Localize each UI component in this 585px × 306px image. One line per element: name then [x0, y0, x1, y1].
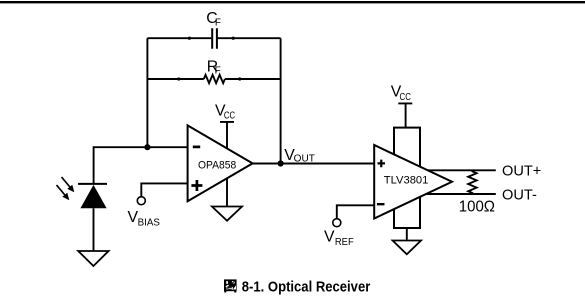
wire photodiode to inverting input	[94, 147, 188, 184]
node junction at inverting input	[144, 144, 150, 150]
wire RF branch	[147, 78, 280, 80]
capacitor CF	[206, 10, 221, 49]
wire OUT+	[428, 169, 496, 171]
ground photodiode	[78, 251, 108, 266]
resistor RF	[204, 58, 225, 83]
svg-text:BIAS: BIAS	[138, 217, 161, 228]
wire VREF to TLV inverting input	[337, 205, 374, 218]
svg-text:CC: CC	[400, 92, 411, 103]
svg-text:CC: CC	[224, 111, 235, 122]
svg-text:F: F	[215, 18, 221, 29]
wire photodiode anode to ground	[93, 208, 95, 251]
svg-text:REF: REF	[335, 237, 354, 248]
wire OPA858 ground stub	[226, 176, 228, 206]
svg-text:OUT+: OUT+	[502, 164, 541, 180]
svg-text:OUT-: OUT-	[502, 188, 537, 204]
VCC supply TLV3801	[391, 84, 413, 128]
wire feedback-loop right vertical	[280, 38, 282, 163]
svg-text:8-1. Optical Receiver: 8-1. Optical Receiver	[242, 279, 371, 296]
ground TLV3801	[393, 241, 421, 255]
ground OPA858	[212, 207, 242, 221]
svg-text:OUT: OUT	[294, 154, 315, 165]
op-amp U1 OPA858	[188, 125, 253, 201]
svg-text:V: V	[324, 229, 335, 246]
node RF lead nubs	[177, 77, 180, 80]
node CF lead nubs	[188, 37, 191, 40]
photodiode D1	[57, 177, 108, 208]
wire OUT-	[426, 193, 496, 195]
svg-text:TLV3801: TLV3801	[384, 174, 429, 186]
caption figure 8-1	[224, 279, 370, 296]
svg-text:OPA858: OPA858	[198, 159, 236, 171]
comparator U2 TLV3801	[374, 128, 452, 228]
resistor 100ohm	[459, 170, 495, 215]
VCC supply OPA858	[215, 103, 235, 150]
wire VBIAS to noninverting input	[141, 183, 187, 196]
wire VOUT output	[253, 163, 375, 165]
svg-text:F: F	[215, 65, 221, 76]
svg-text:100Ω: 100Ω	[459, 199, 495, 216]
terminal VBIAS	[128, 197, 161, 229]
wire feedback-loop top (CF branch)	[147, 37, 280, 39]
wire TLV3801 ground stub	[406, 228, 408, 240]
node VOUT	[278, 147, 315, 166]
wire feedback-loop left vertical	[146, 38, 148, 147]
terminal VREF	[324, 219, 354, 248]
